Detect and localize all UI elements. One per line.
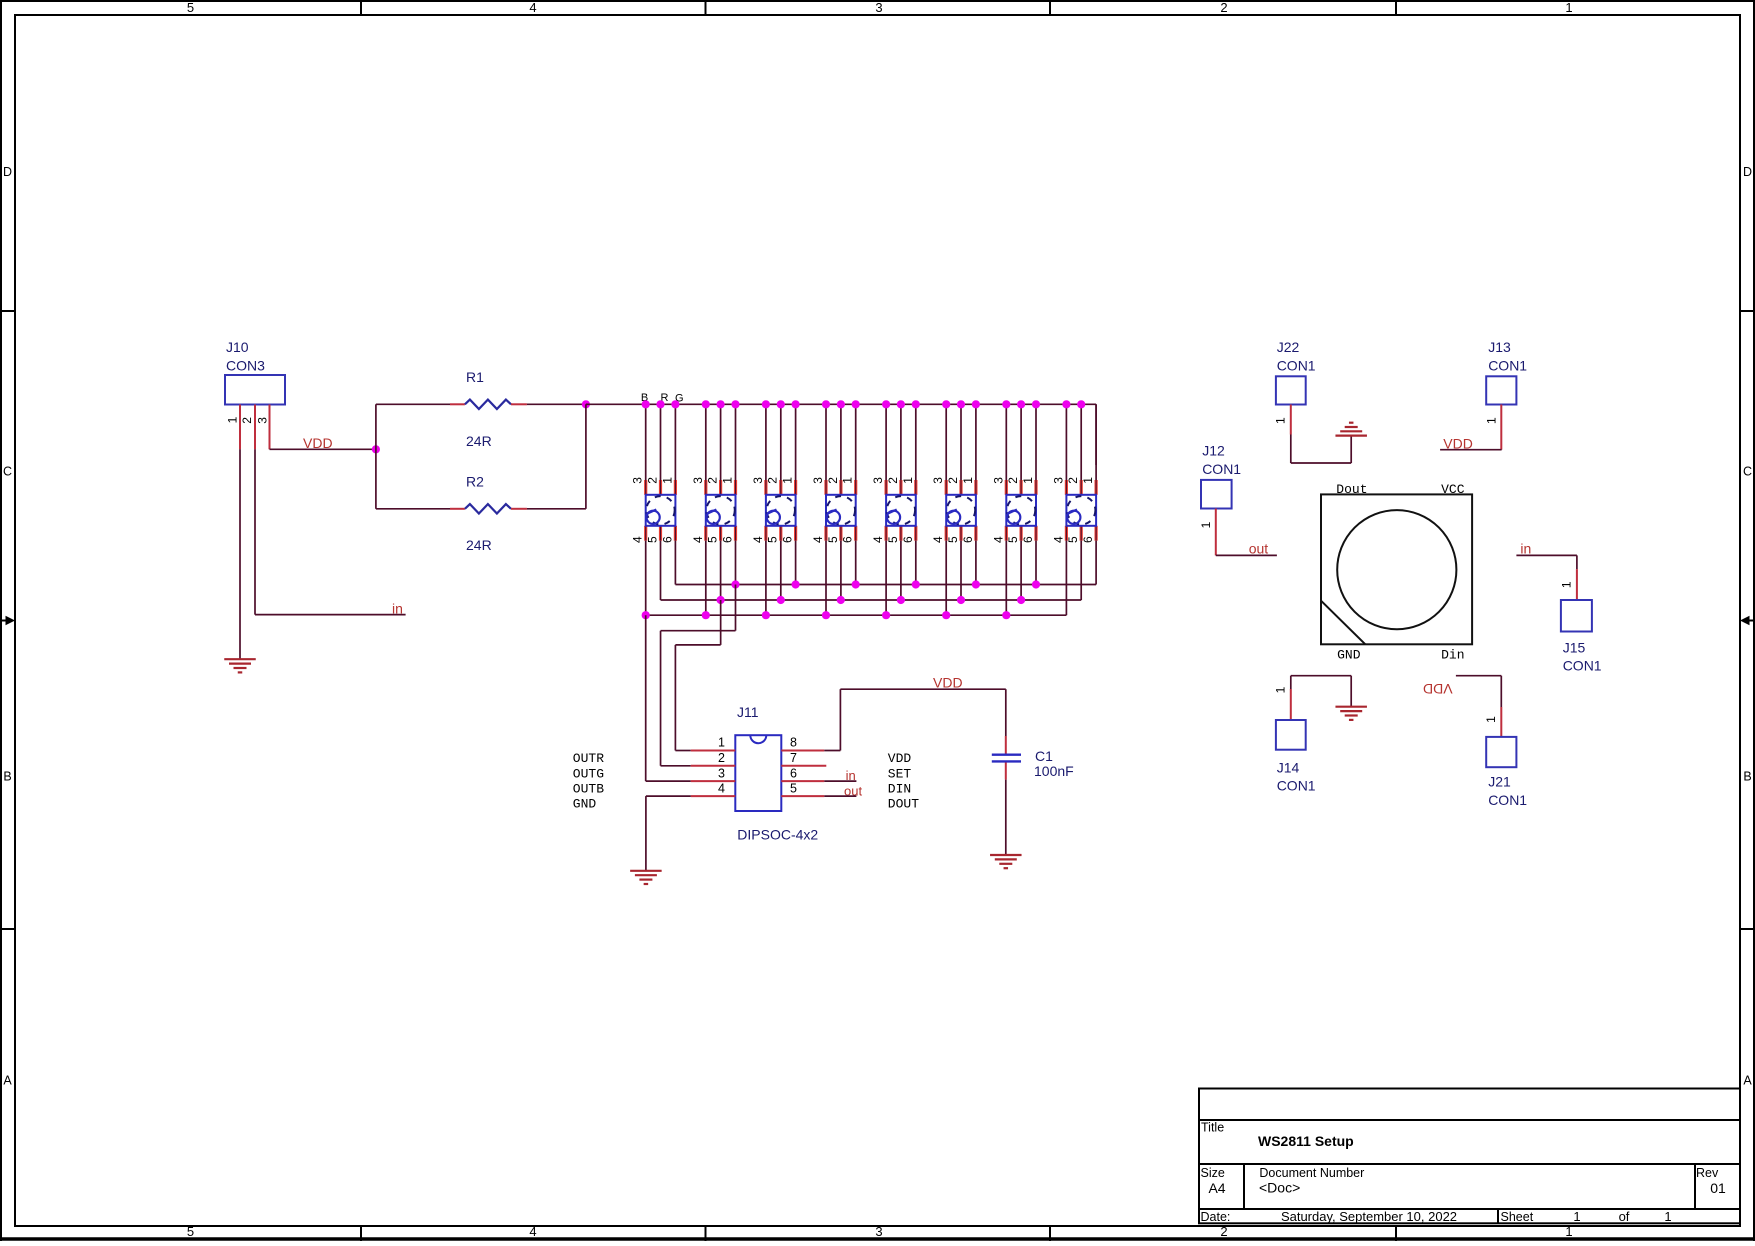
J10 pin 2 [254, 405, 256, 450]
LED D2 pin 3 [704, 480, 707, 495]
connector J12 body [1201, 480, 1232, 509]
svg-text:6: 6 [961, 536, 975, 543]
svg-text:Din: Din [1441, 647, 1464, 662]
svg-text:2: 2 [646, 477, 660, 484]
frame center arrow right [1740, 616, 1755, 626]
connector J13 refdes [1488, 339, 1527, 374]
LED D6 pin 1 [974, 480, 977, 495]
svg-text:R1: R1 [466, 369, 484, 385]
svg-text:1: 1 [1664, 1209, 1671, 1224]
LED D7 pin 4 [1005, 526, 1008, 541]
svg-text:D: D [3, 165, 12, 179]
LED D6 pin 4 [945, 526, 948, 541]
LED D2 pin 5 [719, 526, 722, 541]
J10 pin 3 [269, 405, 271, 450]
svg-text:5: 5 [187, 0, 194, 15]
svg-text:1: 1 [781, 477, 795, 484]
junctions LED D6 top bus [942, 400, 980, 408]
connector J15 refdes [1563, 639, 1602, 673]
LED D4 pin 2 [839, 480, 842, 495]
svg-text:1: 1 [961, 477, 975, 484]
svg-text:6: 6 [901, 536, 915, 543]
svg-text:6: 6 [790, 766, 797, 780]
frame center arrow left [0, 616, 15, 626]
LED D8 pin 4 [1065, 526, 1068, 541]
svg-text:C: C [3, 465, 12, 479]
LED D2 pin 2 [719, 480, 722, 495]
net label out (J11) [844, 783, 862, 798]
wire bus B (pin4 rail) [646, 614, 1067, 616]
junctions LED D3 top bus [762, 400, 800, 408]
svg-text:J14: J14 [1277, 760, 1300, 776]
net label in (J11) [846, 768, 856, 783]
svg-text:Rev: Rev [1696, 1166, 1719, 1180]
svg-text:DIN: DIN [888, 782, 911, 797]
power symbol VDD (J13) [1440, 435, 1502, 451]
wires LED D7 bottom pins [1006, 526, 1036, 615]
svg-text:J15: J15 [1563, 639, 1586, 655]
J12 pin 1 [1199, 509, 1216, 556]
svg-text:3: 3 [751, 477, 765, 484]
connector J12 refdes [1202, 443, 1241, 478]
J10 pin numbers [225, 416, 269, 423]
wire J11 pin5 out stub [824, 795, 856, 797]
wire bus G (pin6 rail) [675, 584, 1096, 586]
wires LED D5 bottom pins [886, 526, 916, 615]
LED D4 pin 6 [854, 526, 857, 541]
svg-text:24R: 24R [466, 537, 492, 553]
wire J10 pin2 to in label [255, 449, 406, 614]
svg-text:3: 3 [991, 477, 1005, 484]
J11 pin names right [888, 751, 919, 812]
wires LED D7 top pins to bus [1006, 404, 1036, 495]
R1 value 24R [466, 433, 492, 449]
svg-text:4: 4 [991, 536, 1005, 543]
LED D8 pin 5 [1080, 526, 1083, 541]
svg-text:A4: A4 [1208, 1180, 1225, 1196]
zone column labels [187, 0, 1573, 1239]
LED D3 pin 4 [764, 526, 767, 541]
LED D2 pin numbers [691, 477, 735, 543]
junctions LED D1 top bus [642, 400, 680, 408]
wires LED D6 top pins to bus [946, 404, 976, 495]
LED D5 pin 5 [899, 526, 902, 541]
svg-text:5: 5 [646, 536, 660, 543]
svg-text:VDD: VDD [933, 675, 963, 691]
LED D7 pin 5 [1019, 526, 1022, 541]
LED D1 pin 4 [644, 526, 647, 541]
LED module D6 body [946, 495, 976, 526]
svg-text:R2: R2 [466, 474, 484, 490]
wire J14 to ground [1291, 676, 1351, 707]
svg-text:4: 4 [931, 536, 945, 543]
resistor R2 body [465, 504, 511, 513]
svg-text:2: 2 [240, 417, 254, 424]
LED D4 pin 3 [824, 480, 827, 495]
svg-text:CON1: CON1 [1277, 778, 1316, 794]
svg-text:WS2811 Setup: WS2811 Setup [1258, 1133, 1354, 1149]
LED D3 pin 5 [779, 526, 782, 541]
svg-text:1: 1 [225, 416, 239, 423]
J11 pin names left [573, 751, 604, 812]
ground symbol J22 (inverted) [1335, 423, 1367, 436]
LED D7 pin 1 [1034, 480, 1037, 495]
wire bus R (pin5 rail) [661, 599, 1082, 601]
svg-text:6: 6 [841, 536, 855, 543]
svg-text:5: 5 [766, 536, 780, 543]
connector J10 refdes [226, 339, 265, 374]
LED D1 pin 2 [659, 480, 662, 495]
svg-text:J21: J21 [1488, 774, 1511, 790]
wire J22 to ground [1291, 435, 1351, 464]
wire J11 pin6 in stub [824, 780, 856, 782]
wire VDD J11 pin8 to C1 [824, 689, 1006, 750]
svg-text:VCC: VCC [1441, 482, 1465, 497]
svg-text:1: 1 [1021, 477, 1035, 484]
svg-text:2: 2 [718, 751, 725, 765]
wires LED D2 top pins to bus [706, 404, 736, 495]
LED D8 pin 3 [1065, 480, 1068, 495]
svg-text:1: 1 [1565, 1224, 1572, 1239]
J11 pin 6 [781, 780, 824, 782]
LED D4 pin 5 [839, 526, 842, 541]
svg-text:7: 7 [790, 751, 797, 765]
svg-text:J10: J10 [226, 339, 249, 355]
J11 pin 3 [691, 780, 736, 782]
wires LED D5 top pins to bus [886, 404, 916, 495]
svg-text:3: 3 [255, 417, 269, 424]
LED D5 pin 2 [899, 480, 902, 495]
ground symbol J14 [1335, 707, 1367, 720]
LED D3 pin numbers [751, 477, 795, 543]
svg-text:1: 1 [1274, 417, 1288, 424]
svg-text:4: 4 [811, 536, 825, 543]
svg-text:1: 1 [1565, 0, 1572, 15]
WS2811 pin label VCC [1441, 482, 1465, 497]
svg-text:1: 1 [1274, 686, 1288, 693]
LED D8 pin 2 [1080, 480, 1083, 495]
net label VDD (C1) [933, 675, 963, 691]
LED D8 pin 1 [1094, 480, 1097, 495]
svg-text:1: 1 [1081, 477, 1095, 484]
svg-text:1: 1 [901, 477, 915, 484]
junctions bus G [731, 580, 1040, 588]
svg-text:5: 5 [946, 536, 960, 543]
svg-text:VDD: VDD [303, 435, 333, 451]
wires LED D6 bottom pins [946, 526, 976, 615]
wires LED D8 top pins to bus [1066, 404, 1096, 495]
svg-text:5: 5 [790, 781, 797, 795]
svg-text:out: out [1249, 540, 1269, 556]
svg-text:CON3: CON3 [226, 358, 265, 374]
connector J22 body [1276, 376, 1306, 404]
J11 pin 7 [781, 765, 826, 767]
svg-text:4: 4 [529, 1224, 536, 1239]
LED D7 pin 6 [1034, 526, 1037, 541]
svg-text:6: 6 [781, 536, 795, 543]
wires LED D4 top pins to bus [826, 404, 856, 495]
resistor R2 refdes [466, 474, 484, 490]
LED module D3 body [766, 495, 796, 526]
wire R2 right lead [511, 508, 586, 510]
LED D5 pin 1 [914, 480, 917, 495]
wire VDD junction vertical [375, 404, 377, 509]
LED D2 pin 6 [734, 526, 737, 541]
junctions LED D5 top bus [882, 400, 920, 408]
svg-text:5: 5 [826, 536, 840, 543]
net label R [661, 392, 669, 404]
LED D1 pin 3 [644, 480, 647, 495]
svg-text:1: 1 [1573, 1209, 1580, 1224]
LED D6 pin 3 [945, 480, 948, 495]
svg-text:OUTR: OUTR [573, 751, 604, 766]
connector J10 CON3 body [225, 375, 285, 405]
wire net R staircase to J11 pin1 [675, 600, 720, 751]
svg-text:3: 3 [718, 766, 725, 780]
LED D5 pin numbers [871, 477, 915, 543]
svg-text:CON1: CON1 [1202, 461, 1241, 477]
junctions LED D8 top bus [1062, 400, 1085, 408]
svg-text:of: of [1619, 1209, 1630, 1224]
ground symbol J11 [630, 871, 662, 884]
wire R1-R2 right vertical [585, 404, 587, 509]
wire R1 right lead [511, 403, 586, 405]
ground symbol C1 [990, 855, 1022, 868]
J22 pin 1 [1274, 405, 1291, 435]
svg-text:3: 3 [931, 477, 945, 484]
svg-text:4: 4 [691, 536, 705, 543]
wires LED D1 top pins to bus [646, 404, 676, 495]
svg-text:Date:: Date: [1201, 1210, 1231, 1224]
svg-text:A: A [1743, 1074, 1752, 1088]
connector J22 refdes [1277, 339, 1316, 374]
svg-text:Sheet: Sheet [1501, 1210, 1534, 1224]
wire net B drop to J11 pin3 [646, 615, 691, 781]
junction R1 output node [582, 400, 590, 408]
WS2811 LED footprint symbol [1321, 494, 1472, 644]
LED D3 pin 6 [794, 526, 797, 541]
capacitor C1 bottom lead [1005, 763, 1007, 856]
svg-text:5: 5 [1006, 536, 1020, 543]
svg-text:6: 6 [1081, 536, 1095, 543]
J11 pin 4 [691, 795, 736, 797]
connector J14 body [1276, 720, 1306, 750]
LED D2 pin 4 [704, 526, 707, 541]
J10 pin 1 [239, 405, 241, 450]
svg-text:CON1: CON1 [1277, 358, 1316, 374]
J11 pin numbers right [790, 736, 797, 796]
title block [1199, 1089, 1740, 1225]
svg-text:1: 1 [1484, 716, 1498, 723]
svg-text:2: 2 [946, 477, 960, 484]
junctions LED D7 top bus [1002, 400, 1040, 408]
wire J11 pin4 to ground [646, 796, 691, 871]
svg-text:6: 6 [660, 536, 674, 543]
LED module D7 body [1006, 495, 1036, 526]
wires LED D4 bottom pins [826, 526, 856, 615]
svg-text:J22: J22 [1277, 339, 1300, 355]
connector J13 body [1486, 376, 1516, 404]
svg-text:1: 1 [721, 477, 735, 484]
svg-text:VDD: VDD [1443, 435, 1473, 451]
svg-text:J11: J11 [737, 704, 759, 720]
LED module D5 body [886, 495, 916, 526]
LED D4 pin 1 [854, 480, 857, 495]
wire in (J15) [1516, 540, 1577, 569]
LED D3 pin 1 [794, 480, 797, 495]
svg-text:SET: SET [888, 766, 912, 781]
connector J15 body [1561, 600, 1592, 632]
svg-text:4: 4 [631, 536, 645, 543]
svg-text:Size: Size [1201, 1166, 1225, 1180]
connector J14 refdes [1277, 760, 1316, 794]
svg-text:OUTG: OUTG [573, 766, 604, 781]
svg-text:3: 3 [691, 477, 705, 484]
svg-text:2: 2 [1220, 0, 1227, 15]
svg-text:CON1: CON1 [1488, 358, 1527, 374]
svg-text:4: 4 [718, 781, 725, 795]
LED D8 pin 6 [1094, 526, 1097, 541]
LED D7 pin 2 [1019, 480, 1022, 495]
LED D2 pin 1 [734, 480, 737, 495]
svg-text:1: 1 [1199, 521, 1213, 528]
C1 refdes and value [1034, 748, 1074, 779]
svg-text:6: 6 [1021, 536, 1035, 543]
svg-text:3: 3 [875, 0, 882, 15]
wires LED D2 bottom pins [706, 526, 736, 615]
svg-text:2: 2 [886, 477, 900, 484]
net label B [641, 392, 648, 404]
LED D1 pin 5 [659, 526, 662, 541]
svg-text:3: 3 [811, 477, 825, 484]
svg-text:VDD: VDD [888, 751, 912, 766]
svg-text:Title: Title [1201, 1120, 1224, 1134]
svg-text:<Doc>: <Doc> [1259, 1180, 1300, 1196]
svg-text:CON1: CON1 [1563, 658, 1602, 674]
svg-text:4: 4 [529, 0, 536, 15]
LED D1 pin 6 [674, 526, 677, 541]
resistor R1 refdes [466, 369, 484, 385]
svg-text:OUTB: OUTB [573, 782, 604, 797]
capacitor C1 body [992, 755, 1021, 762]
wire top bus right drop to LED8 [1095, 404, 1097, 465]
LED D5 pin 6 [914, 526, 917, 541]
svg-text:J12: J12 [1202, 443, 1225, 459]
wires LED D3 bottom pins [766, 526, 796, 615]
svg-text:DOUT: DOUT [888, 797, 919, 812]
svg-text:3: 3 [1051, 477, 1065, 484]
LED D3 pin 2 [779, 480, 782, 495]
svg-text:CON1: CON1 [1488, 792, 1527, 808]
svg-text:DIPSOC-4x2: DIPSOC-4x2 [737, 827, 818, 843]
LED module D1 body [646, 495, 676, 526]
J13 pin 1 [1484, 405, 1501, 450]
svg-text:1: 1 [718, 736, 725, 750]
connector J21 body [1486, 737, 1516, 767]
svg-text:5: 5 [187, 1224, 194, 1239]
svg-text:2: 2 [766, 477, 780, 484]
J11 pin numbers left [718, 736, 725, 796]
junctions LED D2 top bus [702, 400, 740, 408]
svg-text:24R: 24R [466, 433, 492, 449]
LED D4 pin 4 [824, 526, 827, 541]
wire J10 pin1 to ground [239, 449, 241, 659]
LED D1 pin 1 [674, 480, 677, 495]
LED D7 pin 3 [1005, 480, 1008, 495]
svg-text:4: 4 [751, 536, 765, 543]
svg-text:5: 5 [1066, 536, 1080, 543]
J15 pin 1 [1560, 569, 1577, 600]
svg-text:2: 2 [1066, 477, 1080, 484]
svg-text:Document Number: Document Number [1259, 1166, 1364, 1180]
wire net G staircase to J11 pin2 [661, 585, 736, 766]
wires LED D1 bottom pins [646, 526, 676, 615]
svg-text:C1: C1 [1035, 748, 1053, 764]
svg-text:8: 8 [790, 736, 797, 750]
net label in (J10) [392, 601, 403, 617]
ground symbol J10 [224, 659, 256, 672]
J11 pin 8 [781, 750, 824, 752]
svg-text:3: 3 [871, 477, 885, 484]
svg-text:D: D [1743, 165, 1752, 179]
resistor R1 body [465, 400, 511, 409]
svg-text:Saturday, September 10, 2022: Saturday, September 10, 2022 [1281, 1209, 1457, 1224]
LED D5 pin 4 [884, 526, 887, 541]
svg-text:4: 4 [1051, 536, 1065, 543]
LED module D8 body [1066, 495, 1096, 526]
power symbol VDD (J21, rotated) [1423, 676, 1501, 697]
svg-text:3: 3 [875, 1224, 882, 1239]
svg-text:5: 5 [886, 536, 900, 543]
LED D5 pin 3 [884, 480, 887, 495]
svg-text:100nF: 100nF [1034, 763, 1074, 779]
LED module D4 body [826, 495, 856, 526]
svg-text:GND: GND [1337, 647, 1361, 662]
svg-text:2: 2 [706, 477, 720, 484]
svg-text:in: in [1520, 540, 1531, 556]
net label G [675, 393, 684, 405]
svg-text:3: 3 [631, 477, 645, 484]
svg-text:2: 2 [1220, 1224, 1227, 1239]
svg-text:4: 4 [871, 536, 885, 543]
zone row labels [3, 165, 1752, 1088]
wire out (J12) [1216, 540, 1277, 556]
LED D8 pin numbers [1051, 477, 1095, 543]
wire VDD net J10 pin3 to junction [270, 448, 376, 450]
svg-text:J13: J13 [1488, 339, 1511, 355]
wires LED D3 top pins to bus [766, 404, 796, 495]
svg-text:C: C [1743, 465, 1752, 479]
WS2811 pin label GND [1337, 647, 1361, 662]
svg-text:2: 2 [1006, 477, 1020, 484]
svg-text:A: A [3, 1074, 12, 1088]
J11 pin 5 [781, 795, 824, 797]
J11 value DIPSOC-4x2 [737, 827, 818, 843]
svg-text:5: 5 [706, 536, 720, 543]
svg-text:1: 1 [841, 477, 855, 484]
svg-text:1: 1 [660, 477, 674, 484]
LED D1 pin numbers [631, 477, 675, 543]
svg-text:6: 6 [721, 536, 735, 543]
svg-text:2: 2 [826, 477, 840, 484]
LED D4 pin numbers [811, 477, 855, 543]
svg-text:in: in [392, 601, 403, 617]
LED D6 pin 6 [974, 526, 977, 541]
LED D7 pin numbers [991, 477, 1035, 543]
WS2811 pin label Dout [1336, 482, 1367, 497]
capacitor C1 top lead [1005, 736, 1007, 754]
LED D6 pin 5 [959, 526, 962, 541]
